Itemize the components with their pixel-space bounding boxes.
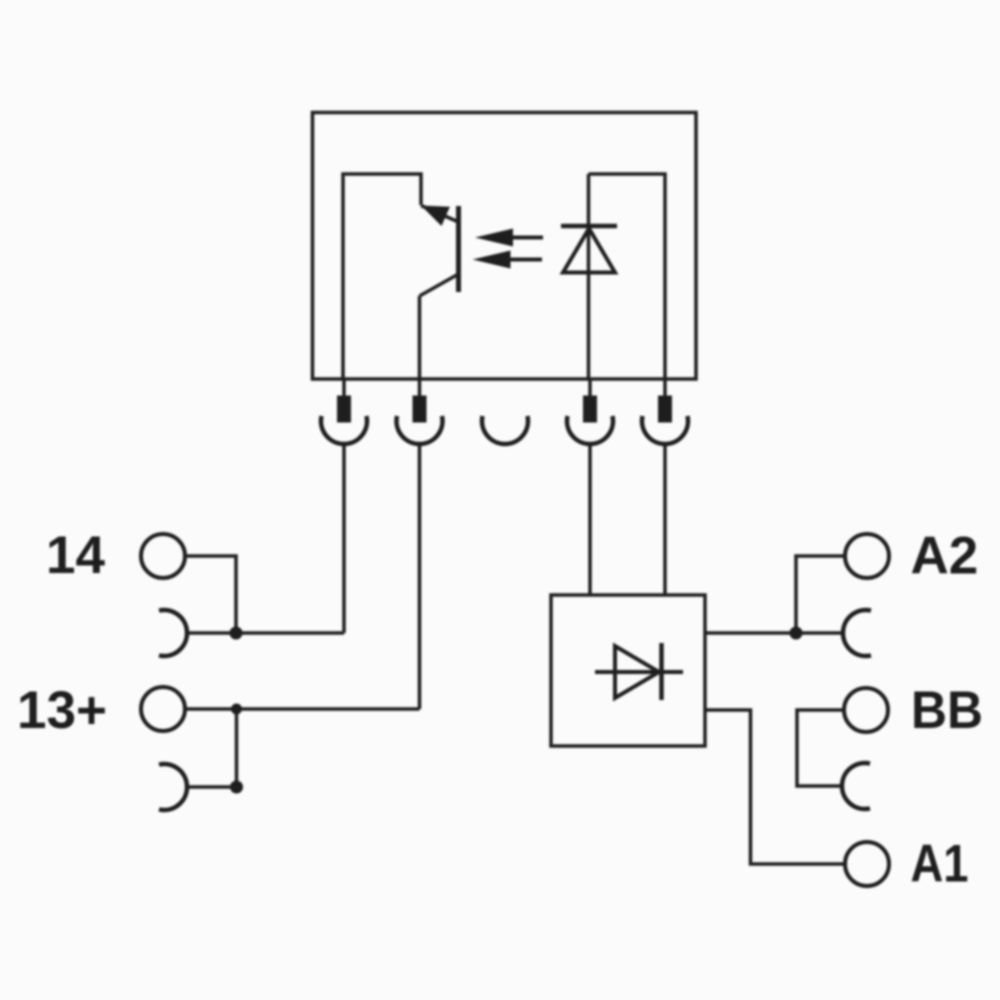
- wire collector branch inside U1: [343, 174, 421, 379]
- wire 13+ horizontal: [185, 707, 420, 711]
- connector pin 2: [413, 379, 427, 423]
- wire 13+ arc link: [187, 785, 237, 789]
- wire pin1 to node 14: [342, 444, 346, 633]
- terminal circle BB: [844, 688, 888, 732]
- transistor Q1 phototransistor: [420, 206, 459, 380]
- socket arc A2: [843, 610, 871, 656]
- junction node 13 bottom: [230, 781, 243, 794]
- svg-text:A1: A1: [911, 835, 969, 894]
- socket arc 4: [567, 416, 613, 444]
- socket arc 3: [482, 416, 528, 444]
- socket arc BB: [842, 763, 870, 809]
- wire diode box to A2 arc: [705, 631, 842, 635]
- terminal circle 13+: [141, 687, 185, 731]
- connector pin 5: [658, 379, 672, 423]
- terminal circle 14: [141, 534, 185, 578]
- socket arc 14: [159, 610, 187, 656]
- LED D1: [561, 174, 617, 379]
- junction node A2: [790, 627, 803, 640]
- svg-text:BB: BB: [911, 681, 983, 740]
- socket arc 5: [642, 416, 688, 444]
- junction node 13 top: [231, 704, 242, 715]
- wire 14 horizontal: [187, 631, 344, 635]
- connector pin 4: [583, 379, 597, 423]
- socket arc 1: [321, 416, 367, 444]
- diode box D2: [551, 595, 705, 746]
- optocoupler module box U1: [313, 113, 697, 380]
- terminal circle A1: [845, 842, 889, 886]
- light arrow 2: [473, 251, 543, 269]
- svg-text:A2: A2: [911, 527, 979, 586]
- wire pin2 to node 13: [418, 444, 422, 709]
- wire BB bracket: [797, 710, 844, 786]
- diode D2 symbol: [595, 643, 683, 700]
- wire pin4 to diode box: [588, 444, 592, 595]
- wire A2 branch: [796, 556, 845, 633]
- svg-text:14: 14: [46, 526, 105, 585]
- wire 14 circle branch: [185, 556, 236, 633]
- socket arc 13+: [159, 764, 187, 810]
- socket arc 2: [397, 416, 443, 444]
- junction node 14: [230, 627, 243, 640]
- light arrow 1: [475, 229, 543, 247]
- wire 13+ branch down: [235, 709, 239, 787]
- wire pin5 to diode box: [663, 444, 667, 595]
- terminal circle A2: [845, 534, 889, 578]
- connector pin 1: [337, 379, 351, 423]
- wire diode box to A1: [705, 710, 845, 864]
- wire anode branch inside U1: [589, 174, 666, 379]
- svg-text:13+: 13+: [17, 681, 107, 740]
